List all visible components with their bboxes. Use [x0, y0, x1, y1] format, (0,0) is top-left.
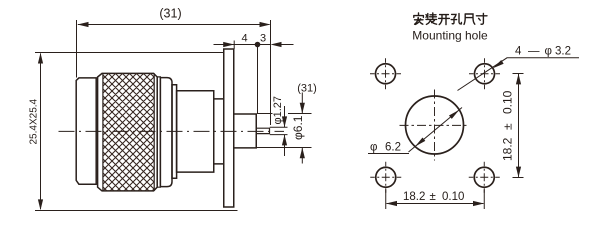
node solder point dot: [255, 42, 261, 48]
svg-text:3.2: 3.2: [555, 46, 571, 58]
dimension phi6.1 extension lines: [257, 114, 312, 148]
body cylinder: [177, 91, 214, 172]
svg-text:φ: φ: [545, 46, 552, 58]
dimension 25.4X25.4 line: [40, 54, 42, 210]
wire from dot down to bushing: [257, 45, 259, 114]
dimension (31) extension line right: [270, 20, 272, 125]
wire top extension line of flange (25.4 dim): [35, 52, 224, 54]
dimension 18.2 bottom extension lines: [386, 190, 485, 210]
svg-text:±: ±: [430, 191, 436, 203]
svg-text:—: —: [528, 46, 540, 58]
ring collar: [172, 85, 177, 179]
knurl crosshatch: [103, 73, 154, 190]
孔: [451, 14, 461, 24]
hole top-left circle: [376, 64, 396, 84]
svg-text:φ1.27: φ1.27: [272, 96, 284, 125]
wire bottom extension line of flange (25.4 dim): [35, 210, 238, 212]
装: [426, 13, 437, 24]
label chinese title 安装开孔尺寸 (drawn as paths): [414, 13, 487, 25]
hole bottom-right circle: [474, 167, 494, 187]
svg-text:4: 4: [241, 33, 247, 45]
svg-text:6.2: 6.2: [385, 142, 401, 154]
svg-text:Mounting hole: Mounting hole: [412, 28, 488, 42]
leader diameter line phi6.2: [409, 108, 463, 153]
svg-text:φ: φ: [370, 142, 377, 154]
svg-text:(31): (31): [297, 83, 317, 95]
hole top-right circle: [475, 64, 495, 84]
knurl body outline: [98, 73, 158, 190]
dimension 18.2 bottom line: [387, 203, 484, 205]
svg-text:φ6.1: φ6.1: [291, 115, 305, 140]
dimension phi1.27 extension lines: [270, 127, 288, 134]
dimension (31) extension line left: [76, 20, 78, 78]
flange plate: [224, 49, 234, 207]
开: [439, 15, 450, 25]
dimension phi1.27 arrows: [284, 106, 286, 156]
washer ring after knurl: [160, 78, 172, 187]
extension line for 4 dim at flange face: [233, 41, 235, 50]
dimension 4 line with arrow: [214, 44, 257, 46]
安: [414, 13, 424, 24]
dimension 18.2 right line: [518, 74, 520, 177]
svg-text:4: 4: [515, 46, 522, 58]
dimension phi6.1 arrows: [301, 93, 303, 164]
knurl hatch boundary right: [153, 73, 155, 190]
寸: [476, 13, 487, 24]
bushing insulator: [234, 114, 257, 148]
svg-text:25.4X25.4: 25.4X25.4: [29, 98, 40, 144]
cap rear nut of connector: [76, 78, 96, 184]
dimension 18.2 right extension lines: [513, 74, 524, 178]
svg-text:(31): (31): [159, 6, 181, 20]
svg-text:3: 3: [260, 33, 266, 45]
svg-text:18.2±0.10: 18.2±0.10: [501, 90, 515, 161]
leader for 4-phi3.2: [458, 58, 580, 91]
knurl hatch boundary left: [102, 73, 104, 190]
knurl end ring: [157, 77, 160, 187]
hole bottom-left circle: [376, 167, 396, 187]
centerline axis: [59, 130, 285, 132]
pin solder pot: [256, 128, 269, 133]
small ring before flange: [214, 99, 224, 164]
dimension (31) line: [78, 24, 270, 26]
svg-text:0.10: 0.10: [442, 191, 464, 203]
hole big circle phi6.2: [406, 96, 464, 154]
svg-text:18.2: 18.2: [403, 191, 425, 203]
尺: [464, 14, 475, 24]
dimension 3 line with arrow: [259, 44, 294, 46]
